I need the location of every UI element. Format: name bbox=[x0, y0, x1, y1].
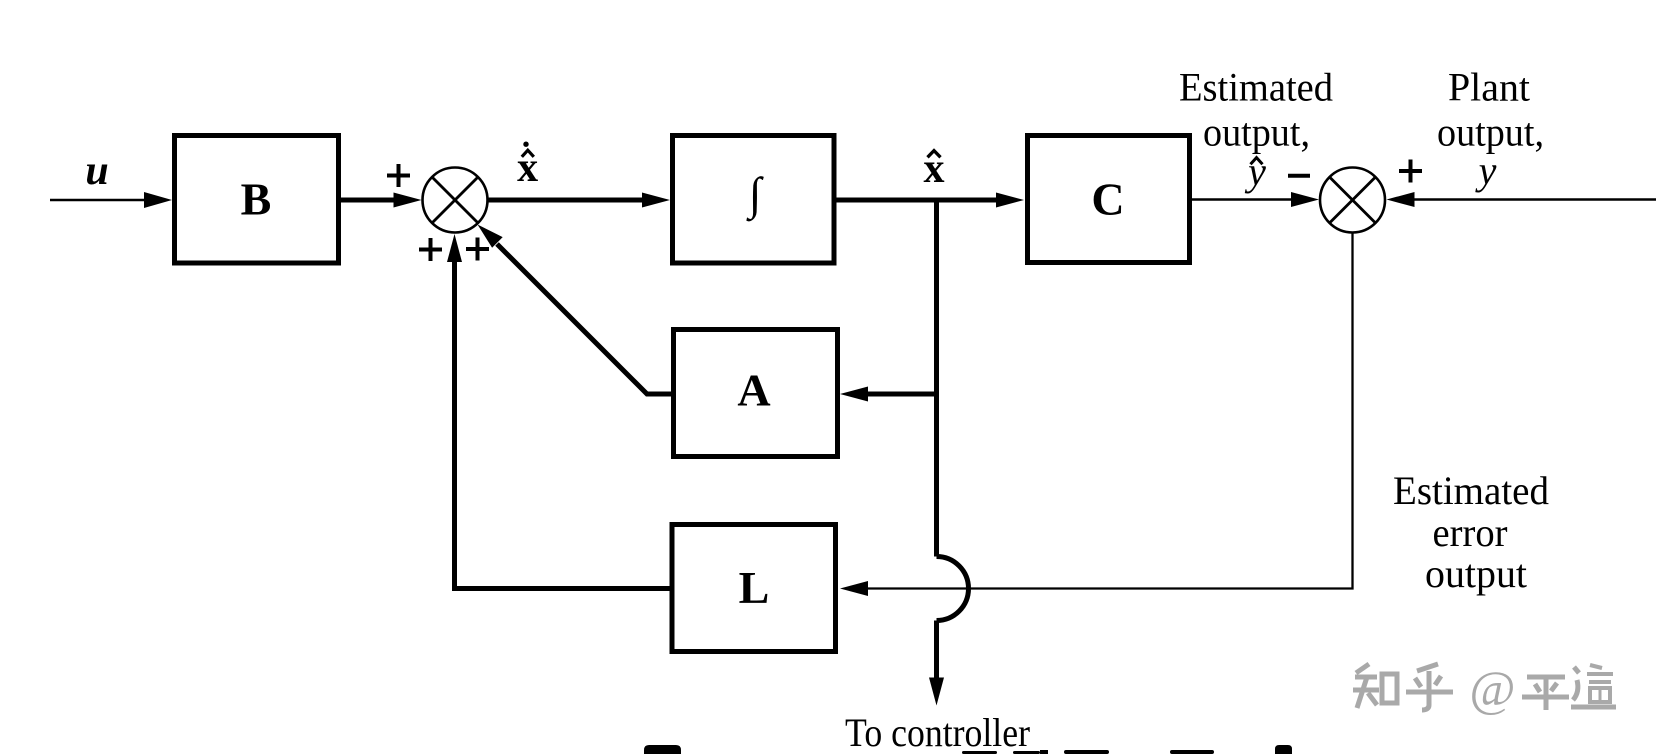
summing junction S1 bbox=[423, 168, 488, 233]
label u bbox=[85, 148, 108, 194]
svg-text:Estimated: Estimated bbox=[1179, 65, 1333, 110]
label To controller bbox=[845, 710, 1030, 754]
block integrator bbox=[673, 136, 835, 264]
wire A output diagonal to S1 bbox=[478, 225, 672, 395]
block A bbox=[674, 330, 838, 457]
label minus sign at S2 bbox=[1288, 174, 1310, 178]
svg-text:y: y bbox=[1475, 148, 1497, 193]
wire integrator to C with tap junction bbox=[837, 193, 1025, 208]
svg-text:u: u bbox=[85, 148, 108, 194]
label x-hat estimated state bbox=[924, 146, 945, 192]
svg-text:output,: output, bbox=[1203, 110, 1310, 155]
label plus sign lower-left of S1 bbox=[419, 238, 442, 261]
wire plant output input from right edge bbox=[1387, 192, 1656, 207]
svg-text:C: C bbox=[1091, 174, 1124, 225]
label Estimated error output bbox=[1393, 468, 1549, 596]
block L bbox=[672, 525, 836, 652]
svg-text:A: A bbox=[737, 365, 770, 416]
svg-text:error: error bbox=[1433, 510, 1508, 555]
svg-text:Plant: Plant bbox=[1448, 65, 1530, 110]
block B bbox=[175, 136, 339, 264]
wire B to summing junction S1 bbox=[341, 193, 422, 208]
wire down to controller bbox=[929, 621, 944, 706]
svg-text:y: y bbox=[1244, 149, 1266, 194]
wire S2 down and error feedback to L bbox=[840, 233, 1353, 596]
label plus sign upper-left of S1 bbox=[387, 164, 410, 187]
wire L output loop up to S1 bbox=[447, 234, 670, 589]
label Plant output heading bbox=[1437, 65, 1544, 155]
watermark zhihu at pingyao bbox=[1353, 664, 1616, 710]
wire C to summing junction S2 bbox=[1192, 192, 1319, 207]
label Estimated output heading bbox=[1179, 65, 1333, 155]
label x-hat-dot estimated state derivative bbox=[517, 142, 538, 192]
label y-hat estimated output bbox=[1244, 149, 1266, 194]
watermark at sign bbox=[1469, 660, 1515, 716]
block C bbox=[1028, 136, 1190, 263]
svg-text:x: x bbox=[517, 145, 538, 191]
svg-text:L: L bbox=[739, 562, 770, 613]
svg-text:To controller: To controller bbox=[845, 710, 1030, 754]
svg-text:output: output bbox=[1425, 551, 1527, 596]
cut-off large text fragments at bottom bbox=[644, 745, 1292, 754]
wire vertical tap from x-hat node down bbox=[934, 200, 939, 557]
label plus sign lower-right of S1 bbox=[466, 238, 489, 261]
svg-text:∫: ∫ bbox=[746, 168, 764, 222]
label plus sign at S2 bbox=[1399, 160, 1422, 183]
wire hop over error line bbox=[937, 557, 969, 621]
svg-text:x: x bbox=[924, 146, 945, 192]
wire u input bbox=[50, 192, 172, 208]
wire tap to A input bbox=[840, 387, 937, 402]
svg-text:B: B bbox=[241, 174, 272, 225]
wire S1 to integrator bbox=[488, 193, 671, 208]
svg-text:@: @ bbox=[1469, 660, 1515, 716]
label y plant output bbox=[1475, 148, 1497, 193]
summing junction S2 bbox=[1320, 168, 1385, 233]
svg-text:Estimated: Estimated bbox=[1393, 468, 1549, 513]
